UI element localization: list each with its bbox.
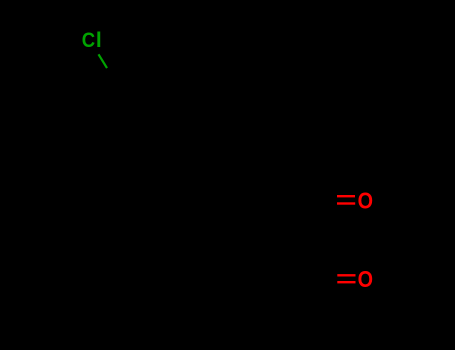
black half of C2=O bond [315,274,337,276]
carbonyl 1 double bond (red), lower bar [337,202,355,204]
C-Cl bond lower half (black) [107,68,116,82]
svg-text:l: l [96,29,102,52]
cyclopentane ring, black-on-black skeleton [83,213,213,333]
C-Cl bond upper half (green) [99,54,108,68]
bond methine to lower ring [213,205,258,222]
bond C1 to C2 [314,200,316,278]
svg-text:C: C [82,28,95,52]
bond ring to methine carbon [158,150,258,205]
carbonyl 2 double bond (red), lower bar [337,281,355,283]
bond methine to carbonyl C1 [258,200,315,205]
benzene ring (4-chlorophenyl), black-on-black skeleton [97,81,177,152]
svg-text:O: O [358,187,373,213]
svg-text:O: O [358,266,373,292]
carbonyl 2 double bond (red), upper bar [337,274,355,276]
black half of C1=O bond [315,195,337,197]
carbonyl 1 double bond (red), upper bar [337,195,355,197]
bond C2 to methyl [265,278,315,305]
